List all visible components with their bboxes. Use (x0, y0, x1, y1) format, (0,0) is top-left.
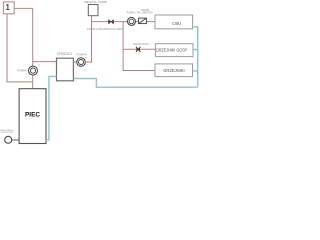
valve V2 ball valve (136, 47, 141, 52)
svg-text:POMPA CYRK. ZWROTNY: POMPA CYRK. ZWROTNY (127, 11, 153, 15)
pump P2 circuits pump (77, 58, 86, 67)
expansion tank (zbiornik combi) (88, 5, 98, 16)
wire separator to pump P2 (73, 61, 77, 63)
blue stub utility radiators (193, 49, 198, 51)
svg-text:1: 1 (6, 3, 11, 12)
svg-text:CWU: CWU (172, 21, 181, 27)
boiler PIEC (19, 89, 46, 144)
CWU box (155, 15, 193, 29)
blue return bus to separator (73, 79, 197, 88)
svg-text:SPRZĘGŁO: SPRZĘGŁO (57, 52, 73, 56)
wire branch to hydraulic separator (33, 61, 57, 63)
wire pump P2 up to supply header (85, 16, 91, 62)
blue return from CWU (193, 27, 198, 87)
utility radiators box (155, 44, 193, 57)
node 1 (controller box "1") (3, 2, 14, 14)
wire from node 1 bottom to boiler supply junction (7, 14, 33, 82)
svg-text:POMPA: POMPA (76, 53, 86, 57)
svg-text:ZAWÓR KULOWY: ZAWÓR KULOWY (133, 41, 149, 46)
wire CWU supply line (92, 21, 156, 23)
svg-text:PIEC: PIEC (25, 111, 40, 118)
blue stub radiators (193, 70, 198, 72)
hydraulic separator box (57, 58, 74, 81)
svg-text:POMPA: POMPA (17, 69, 27, 73)
radiators box (155, 64, 193, 77)
wire branch to utility radiators (123, 48, 155, 50)
svg-text:GRZEJNIKI GOSP: GRZEJNIKI GOSP (156, 47, 187, 53)
pump P3 CWU circulation (128, 17, 136, 25)
svg-text:ZAWÓR CZTERODROGOWY MIESZ.: ZAWÓR CZTERODROGOWY MIESZ. (87, 26, 124, 31)
check valve (139, 18, 147, 24)
valve V1 four-way mixing valve (108, 20, 113, 24)
blue return separator to boiler (46, 76, 57, 139)
drain/filling valve at boiler (5, 136, 19, 143)
svg-text:ZBIORNIK COMBI: ZBIORNIK COMBI (84, 0, 107, 4)
pump P1 boiler circulation (29, 66, 38, 75)
wire from node 1 right side down to boiler riser (14, 8, 33, 88)
svg-text:I SPUSTOWY: I SPUSTOWY (0, 132, 14, 134)
svg-text:GRZEJNIKI: GRZEJNIKI (163, 68, 185, 74)
wire radiator riser (123, 22, 155, 71)
